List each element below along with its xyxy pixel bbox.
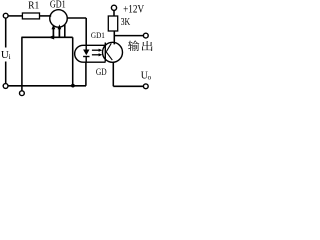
optocoupler LED anode lead	[85, 45, 87, 49]
optocoupler LED cathode bar	[83, 56, 89, 58]
terminal Ui- (bottom-left)	[3, 84, 8, 89]
svg-text:R1: R1	[28, 0, 39, 12]
resistor 3K	[108, 16, 117, 31]
terminal +12V	[111, 5, 116, 10]
wire: R1 to LED GD1	[40, 15, 52, 17]
wire: left rail lower	[5, 62, 7, 84]
junction dot on rail	[71, 84, 75, 88]
wire: +12V terminal to 3K resistor	[113, 11, 115, 16]
optocoupler LED cathode lead	[85, 57, 87, 63]
optocoupler GD1 body (stadium)	[75, 45, 106, 62]
wire: LED right side to optocoupler (horizontal)	[67, 17, 86, 19]
wire: bar right end down to bottom rail	[72, 37, 74, 85]
terminal output top	[143, 33, 148, 38]
LED GD1 (top): circle body	[50, 10, 68, 28]
wire: LED bottom bar (horizontal)	[21, 36, 72, 38]
svg-text:GD: GD	[96, 66, 107, 77]
svg-text:+12V: +12V	[123, 2, 144, 15]
terminal Ui+ (top-left input)	[3, 13, 8, 18]
photodiode cathode bar	[104, 43, 106, 62]
wire: bottom rail	[8, 85, 86, 87]
wire: output tap to terminal	[114, 35, 143, 37]
svg-text:o: o	[148, 74, 152, 82]
resistor R1	[22, 13, 39, 19]
svg-text:GD1: GD1	[91, 31, 105, 40]
wire: photodiode bottom down	[112, 62, 114, 86]
wire: left rail upper (Ui+ down)	[5, 18, 7, 48]
LED GD1 light arrow 1 (up)	[52, 28, 54, 37]
light arrow 1 (right)	[92, 49, 100, 51]
LED GD1 light arrow 2 (up)	[58, 28, 60, 37]
wire: rail right end up to optocoupler cathode	[85, 62, 87, 86]
wire: Ui+ terminal to R1	[8, 15, 22, 17]
label 输出 (vector paths)	[128, 40, 139, 51]
arrowhead on bar pointing left	[48, 35, 54, 39]
photodiode triangle (left-pointing outline)	[106, 43, 112, 60]
LED GD1 stem right vertical	[64, 25, 66, 38]
wire: bar left corner down to terminal T3	[21, 37, 23, 91]
wire: to Uo terminal	[113, 85, 143, 87]
terminal T3 (bottom, under rail)	[20, 91, 25, 96]
optocoupler LED triangle (down)	[83, 50, 89, 56]
svg-text:GD1: GD1	[50, 0, 66, 10]
photodiode GD circle	[103, 42, 123, 62]
light arrow 2 (right)	[92, 54, 100, 56]
wire: down into optocoupler LED anode	[85, 18, 87, 46]
wire: 3K bottom to photodiode top	[113, 31, 115, 44]
svg-text:i: i	[9, 52, 11, 61]
terminal Uo	[143, 84, 148, 89]
svg-text:3K: 3K	[121, 17, 131, 28]
